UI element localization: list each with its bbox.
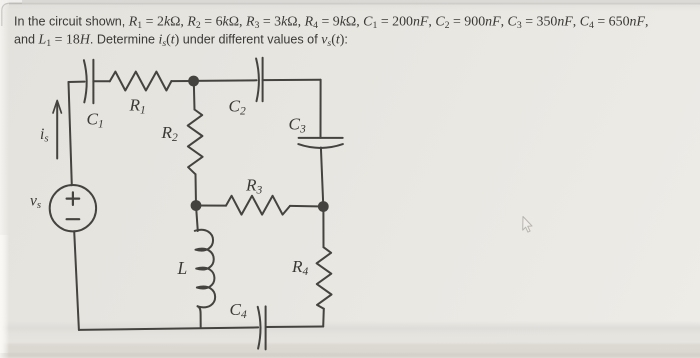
resistor R4 bbox=[317, 247, 332, 309]
wire C3 to node N3 bbox=[321, 148, 323, 207]
svg-text:C4: C4 bbox=[230, 300, 247, 321]
wire N1 to C2 bbox=[194, 79, 257, 82]
current arrow is bbox=[56, 104, 58, 159]
wire right rail top (corner to C3) bbox=[320, 80, 322, 138]
node N3 bbox=[318, 201, 329, 212]
svg-text:C1: C1 bbox=[87, 110, 104, 131]
wire C1 to R1 bbox=[93, 80, 109, 82]
svg-text:C2: C2 bbox=[229, 97, 246, 118]
svg-text:is: is bbox=[40, 126, 49, 145]
svg-text:and L1 = 18H. Determine is(t): and L1 = 18H. Determine is(t) under diff… bbox=[14, 33, 348, 50]
wire R2 to node N2 bbox=[195, 174, 198, 205]
capacitor C2 bbox=[256, 59, 259, 102]
svg-text:C3: C3 bbox=[289, 115, 306, 136]
wire R3 to node N3 bbox=[290, 205, 323, 208]
svg-text:R3: R3 bbox=[245, 176, 263, 197]
wire left rail bottom (source to bottom corner) bbox=[74, 231, 79, 330]
wire N3 to R4 bbox=[322, 207, 324, 248]
svg-text:R4: R4 bbox=[291, 257, 309, 278]
wire bottom right (corner to C4 right plate) bbox=[266, 326, 323, 329]
node N1 bbox=[188, 76, 199, 87]
resistor R1 bbox=[110, 72, 172, 91]
capacitor C3 bbox=[299, 137, 343, 139]
wire N2 to L bbox=[196, 206, 198, 232]
wire R1 to node N1 bbox=[171, 80, 193, 82]
svg-text:In the circuit shown, R1 = 2kΩ: In the circuit shown, R1 = 2kΩ, R2 = 6kΩ… bbox=[14, 15, 648, 32]
wire L to bottom wire bbox=[198, 306, 201, 327]
svg-text:vs: vs bbox=[30, 193, 41, 212]
wire bottom (corner to C4 left) bbox=[79, 327, 258, 330]
capacitor C1 bbox=[84, 60, 87, 102]
inductor L bbox=[195, 230, 215, 308]
wire N1 to R2 bbox=[193, 81, 196, 110]
svg-text:R2: R2 bbox=[161, 123, 179, 144]
wire R4 to bottom-right corner bbox=[322, 309, 325, 327]
resistor R3 bbox=[226, 196, 290, 215]
svg-text:R1: R1 bbox=[129, 96, 146, 117]
voltage source Vs bbox=[50, 185, 96, 231]
wire N2 to R3 bbox=[196, 205, 226, 207]
capacitor C4 bbox=[258, 307, 261, 349]
resistor R2 bbox=[188, 110, 203, 175]
wire left rail top (corner to source) bbox=[69, 82, 72, 185]
mouse cursor bbox=[523, 217, 532, 233]
node N2 bbox=[191, 200, 202, 211]
wire C2 to top-right corner bbox=[263, 79, 321, 81]
problem statement line 1 bbox=[14, 15, 648, 50]
svg-text:L: L bbox=[177, 258, 188, 278]
wire top-left corner to C1 bbox=[69, 81, 85, 83]
